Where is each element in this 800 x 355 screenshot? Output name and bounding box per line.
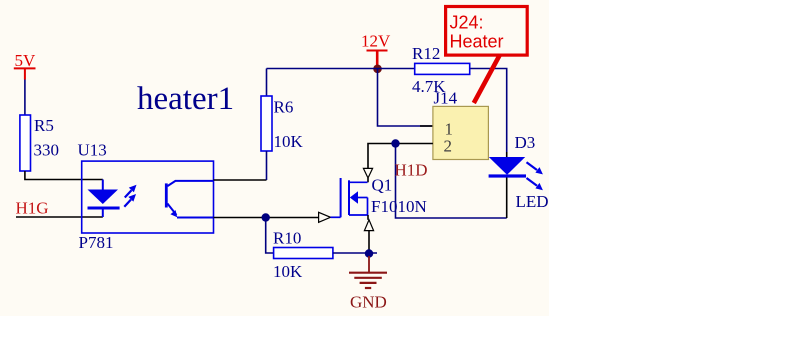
wire R6 bottom bbox=[266, 151, 268, 180]
svg-text:F1010N: F1010N bbox=[371, 197, 427, 216]
wire 12V rail bbox=[267, 69, 507, 153]
J24 callout box bbox=[446, 7, 528, 56]
schematic sheet background bbox=[0, 0, 549, 316]
wire opto collector to R6 bbox=[214, 179, 267, 181]
open arrow drain bbox=[363, 168, 372, 178]
D3 emission arrows bbox=[527, 162, 543, 190]
wire H1D net to LED cathode bbox=[396, 144, 507, 219]
svg-text:10K: 10K bbox=[274, 132, 304, 151]
node junction R10/source/GND bbox=[365, 249, 373, 257]
resistor R5 bbox=[20, 115, 31, 171]
wire emitter junction down to R10 bbox=[266, 218, 274, 254]
callout leader line bbox=[474, 55, 500, 104]
node junction emitter/R10 bbox=[262, 213, 270, 221]
svg-text:R10: R10 bbox=[273, 228, 301, 247]
opto light arrows bbox=[124, 185, 136, 207]
pin 1 stub bbox=[420, 125, 433, 127]
svg-text:heater1: heater1 bbox=[137, 81, 234, 117]
node junction pin2/H1D bbox=[391, 139, 399, 147]
svg-text:12V: 12V bbox=[361, 31, 391, 50]
svg-text:2: 2 bbox=[444, 137, 453, 156]
svg-text:Heater: Heater bbox=[450, 32, 504, 52]
svg-text:LED: LED bbox=[516, 192, 549, 211]
svg-text:H1G: H1G bbox=[16, 198, 49, 217]
svg-text:5V: 5V bbox=[15, 51, 37, 70]
resistor R10 bbox=[274, 248, 333, 259]
svg-text:10K: 10K bbox=[273, 262, 303, 281]
svg-text:R5: R5 bbox=[34, 116, 54, 135]
wire opto emitter to gate node bbox=[214, 217, 319, 219]
wire source to ground junction bbox=[368, 231, 370, 254]
svg-text:P781: P781 bbox=[79, 233, 114, 252]
resistor R6 bbox=[261, 96, 272, 151]
diode D3 LED bbox=[489, 152, 526, 218]
svg-text:330: 330 bbox=[34, 141, 60, 160]
resistor R12 bbox=[415, 63, 470, 74]
connector J14 box bbox=[433, 106, 489, 159]
svg-text:R12: R12 bbox=[412, 44, 440, 63]
power symbol 5V bar and stub bbox=[14, 68, 36, 79]
svg-text:U13: U13 bbox=[78, 141, 107, 160]
opto phototransistor bbox=[166, 181, 213, 218]
ground GND symbol bbox=[349, 256, 387, 288]
optocoupler U13 box bbox=[82, 161, 214, 233]
wire R10 right to source junction bbox=[333, 252, 377, 254]
svg-text:GND: GND bbox=[350, 293, 387, 312]
svg-text:R6: R6 bbox=[274, 97, 294, 116]
open arrow gate bbox=[319, 212, 331, 222]
transistor Q1 MOSFET bbox=[331, 178, 368, 217]
power symbol 12V bar and stub bbox=[367, 51, 388, 67]
svg-text:J14: J14 bbox=[434, 88, 458, 107]
svg-text:J24:: J24: bbox=[450, 13, 484, 33]
opto LED bbox=[88, 180, 120, 218]
wire source stub top bbox=[367, 215, 369, 220]
wire R5 bottom to optocoupler anode bbox=[25, 171, 103, 180]
svg-text:H1D: H1D bbox=[395, 161, 428, 180]
wire 5V to R5 bbox=[24, 80, 26, 116]
wire drain stub bbox=[367, 178, 369, 182]
svg-text:D3: D3 bbox=[515, 133, 536, 152]
node 12V junction dot bbox=[373, 65, 382, 74]
svg-text:Q1: Q1 bbox=[372, 176, 393, 195]
wire 12V to J14 pin1 bbox=[378, 69, 433, 127]
wire H1G bbox=[16, 216, 103, 218]
open arrow source bbox=[364, 220, 373, 231]
wire R6 top bbox=[266, 69, 268, 97]
wire J14 pin2 to drain bbox=[368, 144, 433, 169]
